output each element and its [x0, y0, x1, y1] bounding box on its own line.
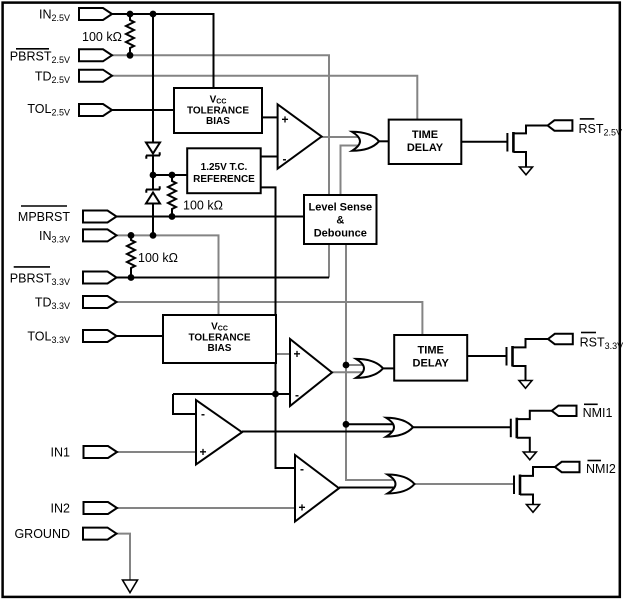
svg-text:100 kΩ: 100 kΩ: [138, 251, 178, 265]
svg-text:1.25V T.C.: 1.25V T.C.: [201, 162, 248, 173]
svg-text:+: +: [281, 113, 288, 127]
svg-text:TIME: TIME: [412, 129, 438, 141]
svg-text:IN1: IN1: [51, 446, 71, 460]
svg-text:100 kΩ: 100 kΩ: [82, 30, 122, 44]
svg-text:-: -: [283, 152, 287, 166]
svg-text:Level Sense: Level Sense: [309, 202, 373, 214]
svg-text:IN2: IN2: [51, 502, 71, 516]
svg-text:BIAS: BIAS: [206, 116, 230, 127]
svg-text:&: &: [336, 215, 344, 227]
svg-text:TOLERANCE: TOLERANCE: [188, 332, 250, 343]
svg-text:DELAY: DELAY: [407, 142, 444, 154]
svg-text:-: -: [300, 462, 304, 476]
svg-text:NMI1: NMI1: [583, 406, 613, 420]
svg-text:DELAY: DELAY: [413, 358, 450, 370]
svg-text:NMI2: NMI2: [586, 462, 616, 476]
svg-text:100 kΩ: 100 kΩ: [183, 199, 223, 213]
svg-text:-: -: [295, 388, 299, 402]
svg-text:+: +: [199, 445, 206, 459]
svg-text:TOLERANCE: TOLERANCE: [187, 105, 249, 116]
svg-text:-: -: [201, 407, 205, 421]
svg-text:MPBRST: MPBRST: [18, 210, 70, 224]
svg-text:TIME: TIME: [418, 345, 444, 357]
svg-text:GROUND: GROUND: [14, 527, 70, 541]
svg-text:BIAS: BIAS: [208, 343, 232, 354]
svg-text:REFERENCE: REFERENCE: [193, 174, 255, 185]
svg-text:Debounce: Debounce: [314, 228, 367, 240]
svg-text:+: +: [293, 347, 300, 361]
svg-text:+: +: [298, 501, 305, 515]
